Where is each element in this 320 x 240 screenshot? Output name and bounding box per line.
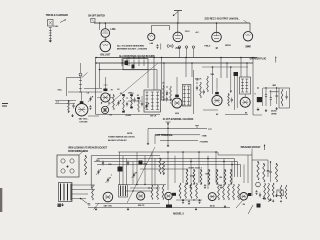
IF transformer T2 xyxy=(144,90,161,112)
wire (tube feed 5) xyxy=(216,78,218,89)
svg-text:25Z5 RECT. 43 OUTPUT L49A BA: 25Z5 RECT. 43 OUTPUT L49A BAL. xyxy=(205,17,240,20)
node (rb tops) xyxy=(257,161,258,162)
node (bus junction 1) xyxy=(121,62,123,64)
switch S1 xyxy=(174,10,182,12)
resistor RB17 xyxy=(285,185,287,199)
trimmer capacitor C29 xyxy=(97,170,99,172)
wire (bottom bus low) xyxy=(88,207,230,209)
wire (bus drop 5) xyxy=(163,63,165,100)
wire (v2 rail) xyxy=(128,100,141,102)
capacitor CB1 xyxy=(182,200,184,202)
ground (rb3) xyxy=(276,194,278,196)
dial lamp V8 xyxy=(148,33,155,40)
wire (tube feed 1) xyxy=(81,92,83,98)
node (bus junction 2) xyxy=(126,62,128,64)
wire (tube feed 2) xyxy=(104,77,106,85)
node (bus junction 6) xyxy=(191,62,193,64)
ground (bottom 4) xyxy=(224,205,226,206)
svg-text:NOTE: NOTE xyxy=(127,133,133,135)
svg-text:A.C.: A.C. xyxy=(196,31,200,34)
resistor RB13 xyxy=(264,183,266,200)
wire (bus drop 3) xyxy=(153,58,155,91)
resistor RB2 xyxy=(157,185,159,200)
jack J1 xyxy=(178,46,180,48)
electrolytic blob xyxy=(257,204,261,208)
capacitor CB3 xyxy=(198,200,200,202)
wire (bottom drop 7) xyxy=(151,152,153,186)
wire (bottom drop 17) xyxy=(231,162,233,184)
output transformer T6 xyxy=(119,185,128,198)
ground (right 2) xyxy=(265,109,267,110)
wire (term drop 3) xyxy=(167,129,169,145)
resistor RB16 xyxy=(280,185,282,199)
wire (bottom drop 12) xyxy=(190,159,192,184)
wire (bottom drop 13) xyxy=(198,152,200,183)
svg-text:7YCBPB: 7YCBPB xyxy=(200,142,209,144)
tube VB1 xyxy=(103,192,113,202)
wire (V8 stem) xyxy=(150,26,152,34)
capacitor C9 xyxy=(231,98,233,100)
terminal post TP1 xyxy=(166,121,171,123)
ground (bottom 2) xyxy=(127,208,129,209)
node (V10 tap) xyxy=(216,22,218,24)
trimmer capacitor C7d xyxy=(145,104,147,106)
node (bus junction 10) xyxy=(246,62,248,64)
resistor R16 xyxy=(200,170,202,184)
node (bus junction 4) xyxy=(161,57,163,59)
wire (bottom drop 11) xyxy=(182,152,184,183)
svg-text:1ST DET.: 1ST DET. xyxy=(79,122,88,124)
svg-text:8: 8 xyxy=(255,94,256,96)
svg-text:SPEAKER SOCKET: SPEAKER SOCKET xyxy=(241,146,262,149)
capacitor C20 xyxy=(156,45,158,47)
trimmer capacitor C33 xyxy=(133,173,135,175)
capacitor C5 xyxy=(89,106,91,108)
IF transformer T4 xyxy=(240,77,251,94)
jack J3 xyxy=(192,46,194,48)
grid cap (V2) xyxy=(103,89,107,92)
resistor RB6 xyxy=(190,183,192,199)
capacitor C7c xyxy=(141,102,143,104)
capacitor C3 xyxy=(72,104,74,106)
svg-text:VIEW LOOKING AT SPEAKER SOCKET: VIEW LOOKING AT SPEAKER SOCKET xyxy=(68,147,108,150)
svg-text:6A7 OSC: 6A7 OSC xyxy=(104,205,113,208)
resistor R17 xyxy=(208,170,210,184)
node (t2 out) xyxy=(163,99,165,101)
wire (VB1 lead) xyxy=(94,203,100,210)
resistor R6b xyxy=(207,76,209,92)
capacitor C14 xyxy=(286,95,288,97)
wire (bus B2) xyxy=(96,62,253,64)
svg-text:BETWEEN SOCKET + CHASSIS: BETWEEN SOCKET + CHASSIS xyxy=(117,48,148,51)
resistor R15 xyxy=(193,170,195,184)
wire (charger pointer) xyxy=(60,20,66,23)
svg-text:100M: 100M xyxy=(205,173,210,175)
wire (upper rail) xyxy=(202,66,248,68)
wire (v5 feed b) xyxy=(230,67,232,93)
wire (V8 top link) xyxy=(151,25,169,27)
wire (bus drop 10) xyxy=(240,58,242,78)
svg-text:SPKR: SPKR xyxy=(225,45,231,47)
rectifier tube V9 xyxy=(173,32,183,42)
trimmer capacitor C30 xyxy=(102,161,104,163)
osc section loop xyxy=(66,78,68,97)
wire (bus drop 8) xyxy=(220,58,222,79)
wire (V9 stem) xyxy=(177,23,179,32)
node (bus junction 12) xyxy=(163,62,165,64)
resistor R10 xyxy=(84,156,86,174)
wire (bottom drop 10) xyxy=(174,156,176,183)
node (bus junction 8) xyxy=(226,62,228,64)
resistor RB1 xyxy=(151,185,153,200)
ground (rb2) xyxy=(270,198,272,200)
tube VB4 xyxy=(208,193,216,201)
wire (bottom drop 4) xyxy=(132,162,134,185)
svg-text:1ST I.F.: 1ST I.F. xyxy=(150,116,157,118)
wire (bottom drop 6) xyxy=(144,156,146,184)
svg-text:ON-OFF SWITCH: ON-OFF SWITCH xyxy=(88,16,105,18)
grid cap (VB3) xyxy=(172,193,176,196)
wire (xfmr lead 4) xyxy=(72,198,86,200)
capacitor C38 xyxy=(269,170,271,172)
wire (gang diagonal bottom) xyxy=(127,147,155,203)
wire (osc out 1) xyxy=(84,88,102,90)
capacitor C8a xyxy=(166,91,168,93)
capacitor C11 xyxy=(265,94,267,96)
wire (tube feed 4) xyxy=(176,77,178,91)
resistor R8 xyxy=(281,89,283,106)
wire (bb rail 4) xyxy=(176,199,202,201)
wire (v5 vertical 2) xyxy=(236,72,238,108)
wire (bus drop 6) xyxy=(185,58,187,78)
capacitor C7b xyxy=(133,98,135,100)
socket pin 4 xyxy=(70,169,74,173)
resistor R18 xyxy=(216,170,218,184)
rect tube V6 xyxy=(240,97,250,107)
trickle charger winding L1 xyxy=(49,27,52,29)
resistor RB9 xyxy=(223,184,225,200)
resistor RB3 xyxy=(162,185,164,200)
scan smudge xyxy=(0,188,2,212)
wire (bottom drop 19) xyxy=(247,155,249,183)
wire (ant line 1) xyxy=(148,127,207,129)
filter choke lead xyxy=(262,88,264,106)
trimmer capacitor C32 xyxy=(107,178,109,180)
svg-text:.05 400 .02 250 .1: .05 400 .02 250 .1 xyxy=(188,167,203,170)
wire (tube feed 3) xyxy=(147,70,149,88)
trimmer capacitor C4 xyxy=(89,97,91,99)
grid cap (V1) xyxy=(80,101,84,103)
resistor R23 xyxy=(275,164,277,182)
capacitor CB4 xyxy=(255,191,257,193)
node (bus junction 3) xyxy=(153,57,155,59)
wire (bus drop 12) xyxy=(252,58,254,98)
resistor RB7 xyxy=(196,183,198,199)
svg-text:OSC.: OSC. xyxy=(58,90,63,92)
svg-text:OHMS: OHMS xyxy=(271,114,277,116)
wire (v5 feed a) xyxy=(212,67,214,94)
wire (bottom drop 5) xyxy=(136,152,138,184)
capacitor C8b xyxy=(196,86,198,88)
wire (bottom drop 2) xyxy=(122,156,124,185)
wire (bottom drop 1) xyxy=(119,152,121,185)
component blob xyxy=(139,161,143,165)
wire (bb rail 2) xyxy=(130,187,160,189)
capacitor C37 xyxy=(220,185,222,187)
grid cap (VB5) xyxy=(248,193,251,196)
wire (ant line 2) xyxy=(155,134,200,136)
wire (bottom bus 1) xyxy=(118,151,218,153)
wire (gang left edge) xyxy=(95,58,97,115)
wire (xfmr lead 3) xyxy=(72,193,88,195)
svg-text:ALL VOLTAGES MEASURED: ALL VOLTAGES MEASURED xyxy=(117,44,145,47)
wire (bus drop 1) xyxy=(121,58,123,67)
resistor RB5 xyxy=(185,183,187,199)
svg-text:TRICKLE CHARGER: TRICKLE CHARGER xyxy=(46,14,69,17)
IF transformer T3 xyxy=(183,85,186,87)
osc coil T2a xyxy=(101,106,108,113)
choke box xyxy=(279,88,290,108)
wire (bottom drop 3) xyxy=(126,159,128,186)
power transformer T5 xyxy=(59,183,73,202)
tube VB5 xyxy=(240,193,248,201)
wire (bus B1) xyxy=(96,57,257,59)
wire (gang top) xyxy=(100,69,158,71)
wire (AC supply line) xyxy=(94,22,250,24)
pilot lamp DS2 xyxy=(243,32,252,41)
svg-text:2ND I.F.: 2ND I.F. xyxy=(195,79,202,81)
capacitor C34 xyxy=(127,161,129,163)
tube VB3 xyxy=(165,192,172,199)
wire (right edge drop) xyxy=(252,97,254,115)
capacitor C13 xyxy=(276,94,278,96)
wire (bottom drop 14) xyxy=(207,156,209,189)
resistor RB11 xyxy=(233,184,235,200)
resistor R24 xyxy=(92,185,94,200)
ground (rb16) xyxy=(280,200,282,201)
wire (coil feed) xyxy=(80,63,82,73)
RF tube V2 xyxy=(101,93,110,102)
capacitor CB2 xyxy=(188,201,190,203)
capacitor C8c xyxy=(203,90,205,92)
ground (trickle charger) xyxy=(49,39,51,41)
component (VB3 bottom) xyxy=(166,205,172,208)
wire (bus drop 4) xyxy=(161,58,163,101)
svg-text:.02: .02 xyxy=(137,95,139,97)
node (bus junction 5) xyxy=(185,57,187,59)
resistor R20 xyxy=(230,170,232,184)
resistor RB14 xyxy=(268,183,270,202)
wire (AC right drop) xyxy=(249,23,251,32)
svg-text:115 V.: 115 V. xyxy=(185,31,191,33)
svg-text:SPEAKER PLUG: SPEAKER PLUG xyxy=(250,58,267,61)
wire (bus drop 9) xyxy=(226,63,228,78)
trickle charger terminal box xyxy=(48,20,54,27)
paper capacitor CB5 xyxy=(277,190,283,196)
wire (V10 stem) xyxy=(216,23,218,32)
trimmer capacitor C6 xyxy=(117,101,119,103)
wire (osc rail 2) xyxy=(55,103,75,105)
ground (term 3) xyxy=(167,144,169,145)
resistor R4 xyxy=(123,95,125,112)
wire (osc rail 1) xyxy=(55,100,76,102)
wire (gang link diagonal) xyxy=(106,63,158,107)
svg-text:FIELD: FIELD xyxy=(205,45,211,47)
jack J2 xyxy=(185,46,187,48)
AF tube V5 xyxy=(212,95,222,105)
wire (socket pointer) xyxy=(79,151,84,156)
resistor R13 xyxy=(162,162,164,175)
wire (bottom bus 5) xyxy=(140,168,188,170)
component C31 xyxy=(118,167,123,172)
fuse box F2 xyxy=(91,18,95,22)
wire (bus drop 11) xyxy=(246,63,248,77)
wire (out rail) xyxy=(225,114,248,116)
resistor R19 xyxy=(224,170,226,184)
svg-text:.0001: .0001 xyxy=(96,160,100,162)
node (bus junction 7) xyxy=(220,57,222,59)
wire (bottom bus 3) xyxy=(94,161,238,163)
socket pin 1 xyxy=(61,159,65,163)
svg-text:21 FF5 B MODEL CHASSIS: 21 FF5 B MODEL CHASSIS xyxy=(163,117,194,121)
wire (V2 pins) xyxy=(101,102,102,103)
filament strip xyxy=(123,59,148,70)
svg-text:L49A: L49A xyxy=(110,28,116,31)
resistor RB15 xyxy=(272,183,274,197)
wire (plate rail) xyxy=(203,109,218,111)
resistor R7 xyxy=(228,94,230,106)
svg-text:6A7 OSC.-: 6A7 OSC.- xyxy=(79,118,89,121)
capacitor C36 xyxy=(204,185,206,187)
svg-text:7-MB: 7-MB xyxy=(202,135,207,137)
resistor RB12 xyxy=(238,184,240,200)
wire (osc out 2) xyxy=(68,91,102,93)
ground (term 1) xyxy=(147,142,149,143)
node (ballast tap) xyxy=(99,23,101,30)
socket pin 2 xyxy=(70,159,74,163)
wire (bus drop 2) xyxy=(126,58,128,67)
svg-text:MODEL 5: MODEL 5 xyxy=(173,211,184,215)
pilot lamp DS1 xyxy=(100,41,111,52)
resistor R22 xyxy=(263,164,265,182)
grid cap blob (V6) xyxy=(234,72,239,76)
ballast tube V7 xyxy=(101,29,110,38)
wire (tube feed 6) xyxy=(244,94,246,97)
resistor R21 xyxy=(257,162,259,180)
resistor R14 xyxy=(186,170,188,184)
resistor RB4 xyxy=(179,183,181,199)
wire (V7-DS1 link) xyxy=(104,37,106,41)
svg-text:495: 495 xyxy=(267,170,270,173)
grid cap (V5) xyxy=(215,92,219,94)
output tube V10 xyxy=(212,32,222,42)
wire (bb rail 3) xyxy=(126,190,152,192)
wire (mid band bottom rail) xyxy=(96,114,160,116)
wire (right T-bar) xyxy=(270,91,279,93)
ground (right 3) xyxy=(276,107,278,108)
tuning box (bottom) xyxy=(90,156,92,188)
wire (bottom drop 18) xyxy=(243,165,245,184)
svg-text:CHG.: CHG. xyxy=(54,26,60,28)
resistor R3 xyxy=(113,95,115,110)
margin mark xyxy=(2,103,8,105)
wire (VB5 lead) xyxy=(236,200,243,208)
svg-text:.05: .05 xyxy=(120,93,122,95)
tube VB2 xyxy=(137,192,145,200)
wire (xfmr lead 1) xyxy=(72,184,95,186)
wire (bottom bus low2) xyxy=(95,203,160,205)
wire (bus drop 7) xyxy=(191,63,193,77)
capacitor C35 xyxy=(189,185,191,187)
resistor R12 xyxy=(159,159,161,175)
node (rc1) xyxy=(257,87,258,88)
fuse F1 xyxy=(168,44,174,48)
capacitor C12 xyxy=(270,97,272,99)
wire (ant line 3) xyxy=(160,140,198,142)
grid cap (V4) xyxy=(175,95,179,97)
resistor R4b xyxy=(131,95,133,108)
svg-text:250M: 250M xyxy=(190,176,195,178)
ground (right 1) xyxy=(257,108,259,110)
svg-text:6D6 78: 6D6 78 xyxy=(138,205,145,207)
svg-text:BALLAST: BALLAST xyxy=(100,53,111,56)
wire (bottom bus 2) xyxy=(97,158,235,160)
ground (bottom right) xyxy=(272,200,274,201)
ground (bottom 3) xyxy=(195,208,197,209)
node (bus junction 9) xyxy=(240,57,242,59)
wire (bottom bus 4) xyxy=(97,164,241,166)
socket key xyxy=(67,166,69,168)
svg-text:10M: 10M xyxy=(128,93,132,95)
jack J4 xyxy=(256,182,261,187)
node (bus junction 11) xyxy=(252,57,254,59)
svg-text:TUNING RANGE 540-1720 KC: TUNING RANGE 540-1720 KC xyxy=(108,136,136,139)
wire (V1 bottom) xyxy=(88,115,99,117)
wire (bottom drop 15) xyxy=(215,152,217,183)
resistor R2 xyxy=(68,101,70,112)
diagonal mark xyxy=(248,205,253,214)
wire (gang left edge 2) xyxy=(99,63,101,88)
wire (v5 vertical 1) xyxy=(234,72,236,110)
mixer tube V1 xyxy=(76,104,88,116)
socket pin 3 xyxy=(61,169,65,173)
wire (bottom drop 8) xyxy=(154,159,156,187)
wire (bb rail 1) xyxy=(128,184,166,186)
node (bus dots) xyxy=(167,151,169,153)
resistor R5b xyxy=(170,86,172,100)
detector tube V4 xyxy=(172,98,182,108)
wire (long vertical) xyxy=(193,70,195,114)
wire (gang right edge) xyxy=(156,70,158,90)
capacitor C7 xyxy=(126,102,128,104)
electrolytic C10 xyxy=(257,97,262,102)
wire (bottom drop 16) xyxy=(223,159,225,184)
wire (term drop 1) xyxy=(147,129,149,143)
ground (xfmr) xyxy=(62,203,64,205)
svg-text:FROM WIRING SIDE: FROM WIRING SIDE xyxy=(68,151,89,153)
ground (bottom 1) xyxy=(95,208,97,209)
wire (bottom drop 9) xyxy=(167,152,169,190)
ground (rb1) xyxy=(263,197,265,199)
resistor R6a xyxy=(200,82,202,98)
switch S2 xyxy=(80,198,82,200)
svg-text:ALIGN I.F. AT 456 KC: ALIGN I.F. AT 456 KC xyxy=(108,139,127,142)
ground (V1) xyxy=(72,114,74,116)
osc coil L2 xyxy=(79,73,82,76)
wire (speaker feed) xyxy=(217,152,219,155)
wire (xfmr lead 2) xyxy=(72,189,95,191)
capacitor C8d xyxy=(166,97,168,99)
